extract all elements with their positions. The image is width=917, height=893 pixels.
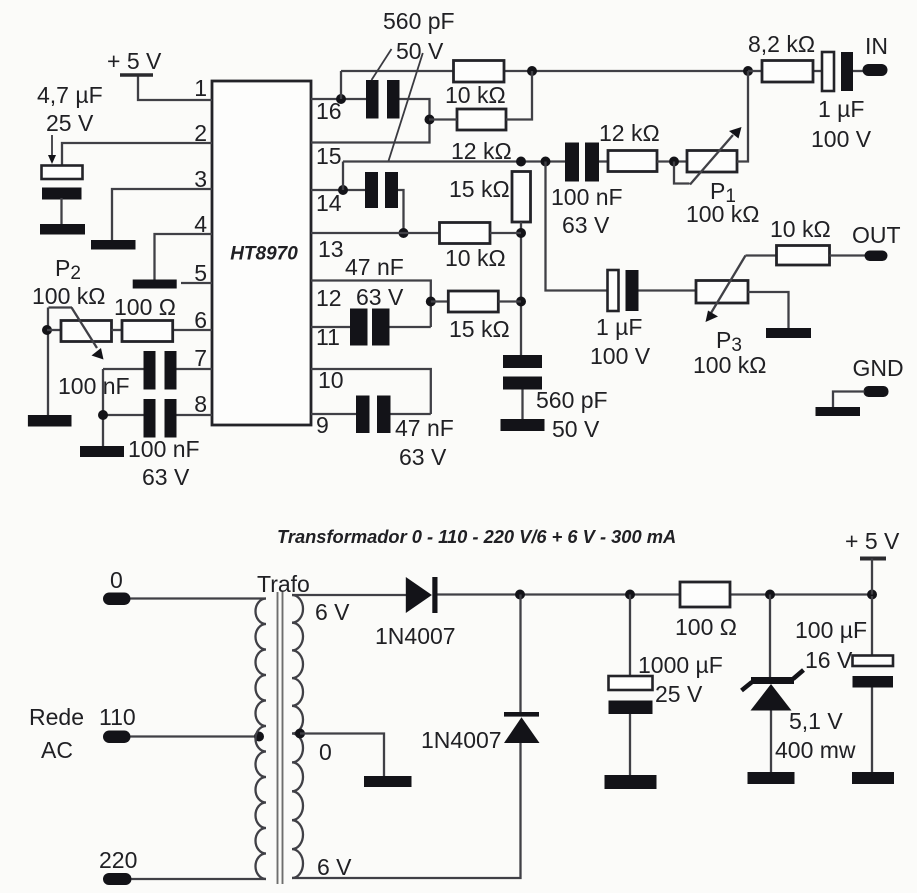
svg-text:4: 4: [194, 211, 207, 237]
svg-text:100 µF: 100 µF: [795, 617, 867, 643]
svg-text:1 µF: 1 µF: [818, 96, 864, 122]
svg-text:10 kΩ: 10 kΩ: [770, 216, 831, 242]
svg-text:1 µF: 1 µF: [596, 314, 642, 340]
svg-text:560 pF: 560 pF: [383, 8, 455, 34]
svg-text:47 nF: 47 nF: [345, 254, 404, 280]
svg-text:50 V: 50 V: [552, 416, 600, 442]
svg-text:1N4007: 1N4007: [421, 727, 502, 753]
svg-text:63 V: 63 V: [142, 464, 190, 490]
svg-text:5,1 V: 5,1 V: [789, 708, 843, 734]
svg-text:12: 12: [316, 285, 342, 311]
svg-text:560 pF: 560 pF: [536, 387, 608, 413]
svg-text:OUT: OUT: [852, 222, 901, 248]
svg-text:9: 9: [316, 412, 329, 438]
svg-text:1N4007: 1N4007: [375, 623, 456, 649]
svg-text:+ 5 V: + 5 V: [107, 48, 162, 74]
svg-text:13: 13: [318, 236, 344, 262]
svg-text:8,2 kΩ: 8,2 kΩ: [748, 31, 815, 57]
svg-text:10: 10: [318, 367, 344, 393]
svg-text:6 V: 6 V: [317, 854, 352, 880]
svg-text:2: 2: [194, 120, 207, 146]
svg-text:15 kΩ: 15 kΩ: [449, 176, 510, 202]
svg-text:12 kΩ: 12 kΩ: [599, 120, 660, 146]
svg-text:6 V: 6 V: [315, 599, 350, 625]
svg-text:1: 1: [194, 75, 207, 101]
svg-text:100 V: 100 V: [590, 343, 651, 369]
svg-text:4,7 µF: 4,7 µF: [37, 82, 103, 108]
svg-text:63 V: 63 V: [356, 284, 404, 310]
svg-text:8: 8: [194, 391, 207, 417]
svg-text:100 nF: 100 nF: [551, 184, 623, 210]
svg-text:100 V: 100 V: [811, 126, 872, 152]
svg-text:10 kΩ: 10 kΩ: [445, 82, 506, 108]
svg-text:400 mw: 400 mw: [775, 737, 856, 763]
svg-text:100 Ω: 100 Ω: [114, 294, 176, 320]
svg-text:10 kΩ: 10 kΩ: [445, 245, 506, 271]
svg-text:HT8970: HT8970: [230, 244, 298, 265]
svg-text:47 nF: 47 nF: [395, 415, 454, 441]
svg-text:100 kΩ: 100 kΩ: [32, 283, 105, 309]
svg-text:0: 0: [319, 739, 332, 765]
svg-text:12 kΩ: 12 kΩ: [451, 138, 512, 164]
svg-text:15: 15: [316, 143, 342, 169]
svg-text:6: 6: [194, 307, 207, 333]
svg-text:AC: AC: [41, 737, 73, 763]
svg-text:GND: GND: [853, 355, 904, 381]
svg-text:110: 110: [99, 704, 136, 730]
svg-text:0: 0: [110, 567, 123, 593]
svg-text:15 kΩ: 15 kΩ: [449, 316, 510, 342]
svg-text:14: 14: [316, 190, 342, 216]
svg-text:7: 7: [194, 345, 207, 371]
svg-text:P2: P2: [55, 255, 81, 284]
svg-text:Transformador 0 - 110 - 220 V/: Transformador 0 - 110 - 220 V/6 + 6 V - …: [277, 526, 676, 547]
svg-text:63 V: 63 V: [399, 444, 447, 470]
svg-text:IN: IN: [865, 33, 888, 59]
svg-text:100 kΩ: 100 kΩ: [693, 352, 766, 378]
svg-text:3: 3: [194, 166, 207, 192]
svg-text:+ 5 V: + 5 V: [845, 528, 900, 554]
svg-text:220: 220: [99, 847, 137, 873]
svg-text:100 nF: 100 nF: [58, 373, 130, 399]
svg-text:100 nF: 100 nF: [128, 436, 200, 462]
svg-text:1000 µF: 1000 µF: [638, 652, 723, 678]
svg-text:100 kΩ: 100 kΩ: [686, 201, 759, 227]
svg-text:63 V: 63 V: [562, 212, 610, 238]
svg-text:Rede: Rede: [29, 704, 84, 730]
svg-text:25 V: 25 V: [46, 110, 94, 136]
svg-text:16 V: 16 V: [805, 647, 853, 673]
svg-text:25 V: 25 V: [655, 681, 703, 707]
svg-text:5: 5: [194, 260, 207, 286]
svg-text:100 Ω: 100 Ω: [675, 614, 737, 640]
